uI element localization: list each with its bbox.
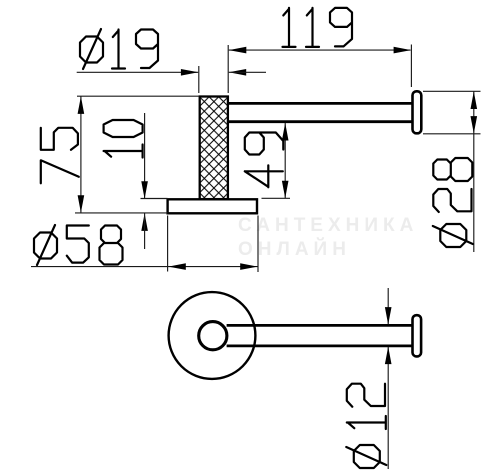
dim dia28 up arrow	[471, 92, 478, 110]
extension line left of plate top	[141, 198, 168, 200]
dim dia58 left arrow	[168, 263, 186, 270]
svg-text:САНТЕХНИКА: САНТЕХНИКА	[238, 215, 418, 236]
dim 49 line	[284, 123, 286, 198]
dim dia12 up arrow	[385, 347, 392, 365]
wall-mount post (knurled, side view)	[200, 97, 228, 200]
label &#216;19	[80, 29, 158, 69]
rod (front view) top edge	[227, 324, 413, 327]
dim dia12 down arrow	[385, 307, 392, 325]
extension line plate left edge down	[167, 216, 169, 272]
dim dia28 line	[473, 91, 475, 252]
dim dia19 right-pointing arrow	[181, 69, 199, 76]
extension line at cap left edge	[410, 45, 412, 88]
dim dia19 opposing left-pointing arrow	[229, 69, 247, 76]
rod end cap (side view)	[413, 91, 422, 133]
rod (front view) bottom edge	[227, 345, 413, 348]
label &#216;28	[433, 158, 473, 247]
dim dia58 line	[31, 266, 258, 268]
extension line left of post top	[77, 95, 199, 97]
label 10	[104, 120, 143, 158]
wall plate circle (front view)	[169, 292, 256, 379]
extension line post left edge	[198, 66, 200, 93]
dim 10 bottom up-arrow	[141, 213, 148, 231]
label 119	[283, 8, 353, 47]
extension line cap top	[423, 90, 481, 92]
dim 119 line	[229, 49, 411, 51]
svg-text:ОНЛАЙН: ОНЛАЙН	[238, 238, 351, 260]
label &#216;12	[346, 384, 386, 468]
dim 49 up arrow	[282, 123, 289, 141]
dim 49 down arrow	[282, 181, 289, 199]
dim dia12 leader line lower	[387, 347, 389, 469]
extension line cap bottom	[423, 133, 481, 135]
paper-holder rod (side view) top edge	[229, 102, 413, 105]
dim 75 down arrow	[78, 195, 85, 213]
dim dia12 leader line upper	[387, 288, 389, 324]
label &#216;58	[34, 225, 123, 265]
base plate (side view)	[168, 199, 257, 213]
extension line plate right edge down	[257, 216, 259, 273]
extension line bottom-left of plate	[75, 212, 168, 214]
label 49	[245, 133, 283, 188]
dim 119 right arrow	[394, 47, 412, 54]
dim dia19 line	[77, 71, 199, 73]
dim 119 left arrow	[229, 47, 247, 54]
extension line right of plate top	[262, 197, 291, 199]
dim 10 leader line	[144, 113, 146, 199]
dim 10 top down-arrow	[141, 181, 148, 199]
post circle (front view)	[199, 322, 227, 350]
dim dia28 down arrow	[471, 116, 478, 134]
rod (side view) bottom edge	[229, 120, 413, 123]
dim 75 up arrow	[78, 96, 85, 114]
dim 75 line	[80, 96, 82, 212]
dim dia58 right arrow	[240, 263, 258, 270]
label 75	[41, 128, 79, 184]
rod end cap (front view)	[413, 315, 422, 356]
extension line post right edge	[227, 45, 229, 93]
